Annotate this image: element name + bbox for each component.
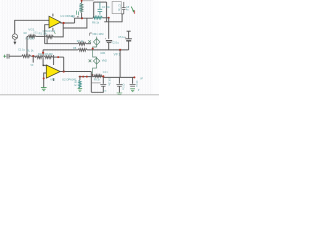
node rail end	[133, 76, 135, 78]
resistor R6 teal	[93, 16, 103, 19]
bottom rail	[79, 76, 104, 78]
svg-text:C7 1u: C7 1u	[118, 4, 122, 11]
U1 power pin up	[52, 14, 54, 17]
U1 power pin down	[52, 28, 54, 32]
bus wire 1	[45, 43, 78, 45]
node corner C3	[108, 17, 110, 19]
capacitor C5b	[118, 77, 120, 83]
capacitor C3 electrolytic	[108, 18, 110, 39]
wire VF down	[119, 50, 121, 77]
svg-text:R7 1k: R7 1k	[77, 40, 84, 43]
node R3 right	[57, 56, 59, 58]
svg-text:RL 1k: RL 1k	[27, 48, 34, 52]
svg-text:C1 1u: C1 1u	[18, 48, 25, 52]
U2 power pin down	[53, 78, 55, 81]
node VM2 bottom	[92, 74, 94, 76]
svg-text:VF1: VF1	[114, 53, 121, 57]
green arrow top right	[131, 7, 133, 12]
wire U2 out down	[90, 72, 92, 93]
resistor RL	[22, 55, 31, 58]
short vertical stub	[46, 39, 48, 44]
resistor R9 horizontal	[94, 75, 102, 78]
node VM bottom	[92, 48, 94, 50]
resistor R5 vertical	[81, 0, 83, 3]
svg-text:C6 1u: C6 1u	[135, 81, 137, 88]
resistor R3	[44, 56, 52, 59]
U2 power pin up	[53, 55, 55, 65]
resistor R4	[36, 56, 42, 59]
ground left	[3, 55, 6, 58]
component box top right	[112, 2, 121, 14]
svg-text:R6 1k: R6 1k	[92, 20, 100, 24]
vertical resistor R9b green	[79, 80, 81, 88]
source VG1	[12, 34, 17, 42]
svg-text:R3 300: R3 300	[45, 53, 54, 56]
node U1 out	[63, 22, 65, 24]
ground R9b	[78, 89, 83, 92]
resistor R7	[78, 42, 86, 45]
ground C5b	[117, 93, 123, 94]
node U2 out	[63, 70, 65, 72]
node R5 junction	[81, 17, 83, 19]
svg-text:C5 1u: C5 1u	[122, 84, 124, 91]
tick below U1	[54, 32, 55, 33]
feedback wire up	[63, 57, 65, 71]
svg-text:VM2: VM2	[102, 59, 108, 62]
svg-text:R9 1k: R9 1k	[94, 79, 101, 81]
node x120	[119, 49, 121, 51]
U2 output wire	[60, 71, 91, 73]
wire input top	[15, 20, 49, 34]
svg-text:VF2: VF2	[50, 78, 55, 82]
svg-text:C4 10n: C4 10n	[108, 78, 110, 86]
capacitor C6b	[132, 77, 134, 83]
wire R2 left down	[26, 36, 28, 54]
wire top edge	[83, 0, 94, 2]
svg-text:10M: 10M	[100, 52, 105, 55]
wire top mid	[104, 14, 122, 22]
stub below node	[32, 56, 34, 63]
node R5 top edge	[81, 0, 83, 2]
ground C6b	[130, 89, 135, 92]
bottom box wires	[91, 86, 103, 92]
svg-text:C2 10n: C2 10n	[102, 6, 111, 9]
capacitor C4	[102, 77, 104, 83]
voltmeter VM1	[88, 33, 100, 50]
op-amp U2	[46, 65, 60, 78]
ground U2	[41, 88, 47, 91]
wire R1 to output	[53, 23, 63, 37]
capacitor C5 electrolytic	[128, 41, 130, 50]
wire output jog up	[75, 18, 93, 23]
wire2 right segment	[109, 49, 129, 51]
U2 inverting input	[43, 57, 46, 67]
page border bottom line	[0, 94, 159, 96]
green marks above output	[77, 11, 79, 16]
resistor R2	[27, 35, 28, 37]
op-amp U1	[49, 16, 61, 28]
source arrow	[13, 42, 16, 45]
sheet background	[0, 0, 159, 100]
svg-text:VF: VF	[30, 64, 34, 67]
resistor R8	[78, 49, 87, 52]
svg-text:C3 1u: C3 1u	[112, 42, 119, 45]
svg-text:C4 1: C4 1	[103, 72, 109, 74]
voltmeter VM2	[89, 50, 100, 76]
capacitor right of box	[121, 2, 126, 14]
resistor R1 feedback	[46, 35, 54, 38]
node RL	[32, 55, 34, 57]
capacitor C1	[7, 54, 9, 59]
node right of R9	[102, 75, 104, 77]
svg-text:R5 1M: R5 1M	[78, 4, 81, 11]
capacitor C2	[98, 2, 103, 15]
bus wire 2	[43, 49, 78, 51]
U1 output wire	[61, 21, 75, 24]
capacitor C2 branch rail	[94, 1, 107, 3]
node B vertical	[42, 50, 44, 57]
wire feedback down	[63, 18, 87, 28]
svg-text:300: 300	[38, 53, 43, 56]
svg-text:R9 1k: R9 1k	[74, 80, 76, 87]
svg-text:C5 1u: C5 1u	[118, 36, 125, 39]
rail nodes	[79, 76, 81, 78]
svg-text:VM1 10M: VM1 10M	[92, 32, 103, 36]
U1 inverting input wire	[45, 25, 49, 44]
U2 non inverting input to ground	[44, 73, 47, 87]
